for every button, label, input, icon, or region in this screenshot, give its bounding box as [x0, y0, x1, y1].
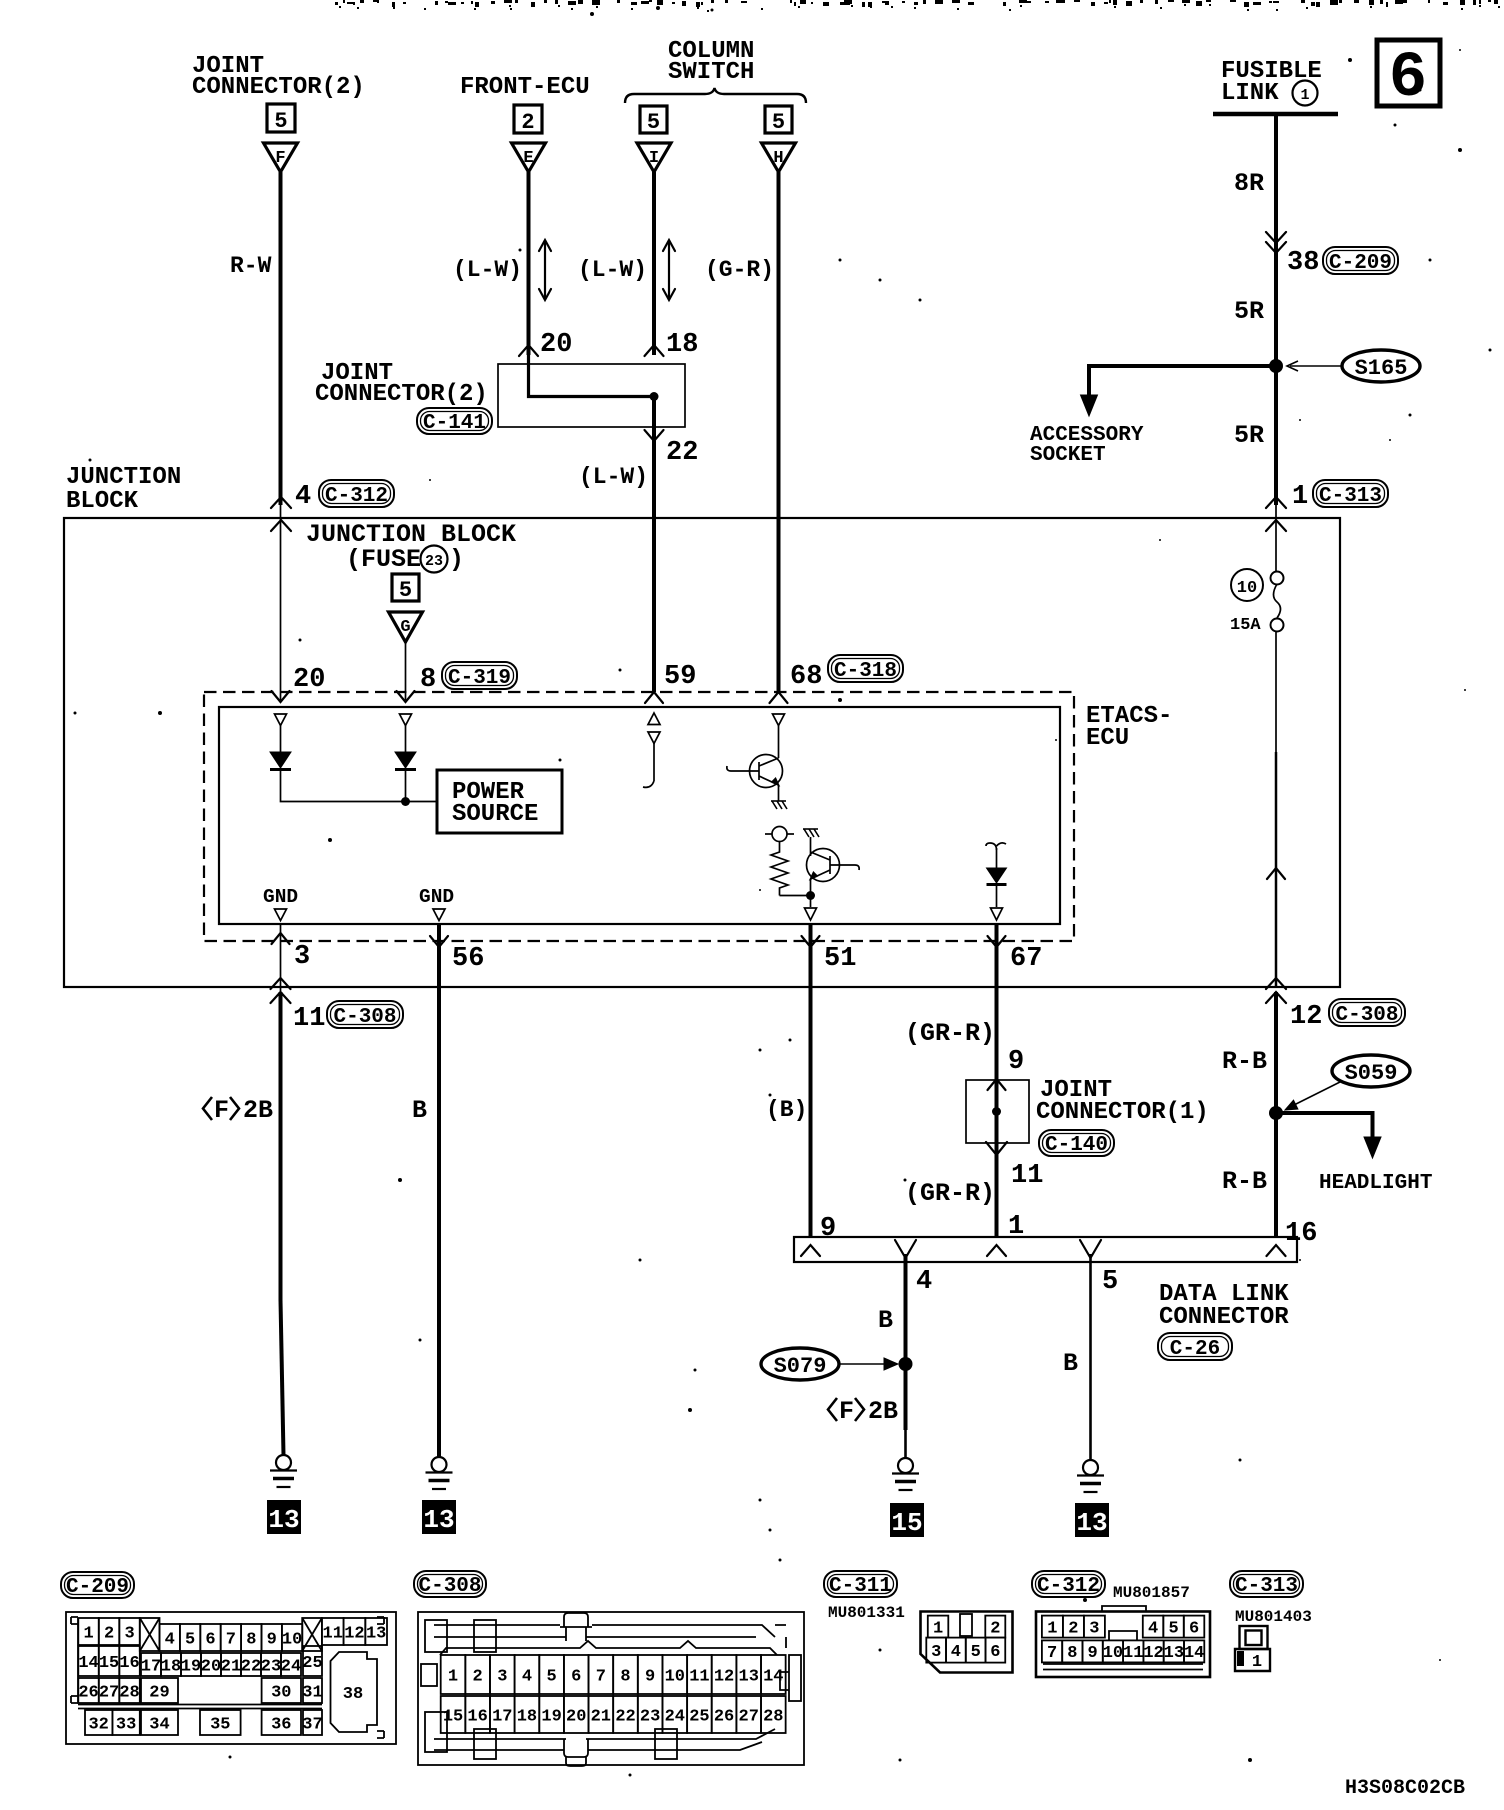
pin 56 chevron at dashed box	[430, 936, 448, 947]
data link connector bar	[794, 1237, 1297, 1262]
svg-text:G: G	[400, 618, 410, 637]
wire pin68 to transistor Q1 collector	[778, 726, 780, 759]
svg-text:33: 33	[116, 1715, 136, 1734]
connector stadium C-319	[442, 662, 517, 690]
svg-text:C-209: C-209	[1329, 252, 1392, 275]
svg-text:(GR-R): (GR-R)	[905, 1019, 995, 1048]
svg-text:5R: 5R	[1234, 297, 1264, 326]
svg-text:(G-R): (G-R)	[705, 257, 774, 283]
fuse symbol (two terminals + S link)	[1271, 572, 1284, 585]
svg-text:LINK: LINK	[1221, 80, 1279, 107]
connector count box 5 (F)	[267, 104, 295, 132]
svg-text:5: 5	[1102, 1267, 1118, 1297]
svg-text:C-311: C-311	[829, 1575, 892, 1598]
svg-text:6: 6	[1189, 1619, 1199, 1638]
svg-text:36: 36	[271, 1715, 291, 1734]
svg-text:F: F	[839, 1397, 854, 1426]
accessory socket branch wire	[1089, 366, 1276, 398]
svg-text:5: 5	[647, 110, 660, 135]
svg-text:13: 13	[1076, 1508, 1107, 1538]
svg-text:30: 30	[271, 1683, 291, 1702]
svg-text:12: 12	[1143, 1644, 1163, 1663]
wire pin59 to contact hook	[653, 744, 655, 782]
connector pin triangle E	[512, 143, 546, 172]
wire node to pin 51 triangle	[810, 896, 812, 908]
svg-text:S165: S165	[1355, 356, 1408, 381]
pin 67 output triangle	[991, 908, 1003, 920]
wire pin 56 down to ground G2	[437, 987, 441, 1457]
svg-text:B: B	[1063, 1349, 1078, 1378]
svg-text:HEADLIGHT: HEADLIGHT	[1319, 1172, 1432, 1195]
svg-text:12: 12	[1290, 1002, 1322, 1032]
svg-text:5: 5	[1168, 1619, 1178, 1638]
ETACS-ECU dashed boundary	[204, 692, 1074, 941]
pin 67 chevron at dashed box	[988, 936, 1006, 947]
svg-text:23: 23	[640, 1707, 660, 1726]
wire 5R lower to junction block	[1274, 366, 1278, 505]
svg-text:20: 20	[293, 665, 325, 695]
svg-text:C-319: C-319	[448, 667, 511, 690]
svg-text:F: F	[275, 149, 285, 168]
connector stadium C-308 (pin 12)	[1329, 999, 1405, 1027]
svg-text:20: 20	[540, 330, 572, 360]
connector stadium C-141	[417, 408, 492, 435]
junction dot node (pin 51)	[806, 891, 815, 900]
svg-text:11: 11	[1123, 1644, 1143, 1663]
POWER SOURCE box	[437, 770, 562, 833]
svg-text:67: 67	[1010, 944, 1042, 974]
chevron below C-140	[986, 1142, 1007, 1155]
svg-text:C-313: C-313	[1235, 1575, 1298, 1598]
wire pin4 to ETACS pin 20 inside block	[280, 500, 282, 700]
svg-text:38: 38	[1287, 248, 1319, 278]
svg-text:18: 18	[666, 330, 698, 360]
svg-text:4: 4	[1148, 1619, 1158, 1638]
connector C-311 pinout drawing	[921, 1612, 1013, 1673]
svg-text:7: 7	[226, 1630, 236, 1649]
svg-text:21: 21	[591, 1707, 611, 1726]
diode D2 (pin 8)	[395, 752, 416, 768]
svg-text:MU801331: MU801331	[828, 1604, 905, 1622]
C-209 pin 38 cavity	[331, 1652, 378, 1732]
wire fusible inside block (thin) upper	[1275, 500, 1277, 572]
connector stadium C-140	[1039, 1130, 1114, 1157]
svg-text:2: 2	[521, 110, 534, 135]
resistor R1	[771, 842, 788, 896]
DLC pin 5 chevron	[1080, 1240, 1101, 1258]
wire from G down to ETACS pin 8	[405, 642, 407, 700]
C-209 pins 26-31 row	[78, 1678, 99, 1703]
connector stadium C-26	[1158, 1333, 1232, 1361]
C-209 pins 32-37 row	[85, 1710, 112, 1735]
junction dot on rail	[401, 797, 410, 806]
ETACS-ECU inner box	[219, 707, 1060, 924]
headlight arrowhead	[1364, 1137, 1381, 1158]
accessory socket arrowhead	[1081, 395, 1098, 416]
svg-text:31: 31	[302, 1683, 322, 1702]
wire label (F)2B left	[203, 1096, 273, 1125]
junction dot inside C-140	[992, 1107, 1001, 1116]
DLC pin 4 chevron	[895, 1240, 916, 1258]
svg-text:(FUSE: (FUSE	[346, 545, 421, 574]
wire pin20 to diode D1	[280, 726, 282, 753]
svg-text:11: 11	[293, 1004, 325, 1034]
svg-text:C-318: C-318	[834, 660, 897, 683]
connector stadium C-318	[828, 655, 903, 683]
connector C-312 pinout drawing	[1036, 1606, 1210, 1677]
wire pin8 to diode D2	[405, 726, 407, 753]
double chevron pin 38	[1266, 232, 1286, 243]
svg-text:4: 4	[951, 1643, 961, 1662]
connector C-308 pinout drawing	[418, 1612, 804, 1766]
svg-text:3: 3	[124, 1624, 134, 1643]
circled 1 (fusible link number)	[1293, 81, 1318, 106]
svg-text:21: 21	[221, 1657, 241, 1676]
svg-text:27: 27	[99, 1683, 119, 1702]
svg-text:20: 20	[566, 1707, 586, 1726]
svg-text:1: 1	[1252, 1653, 1262, 1672]
connector C-209 pinout drawing	[66, 1612, 396, 1744]
wire fuse to block bottom pin 12	[1275, 631, 1277, 752]
svg-text:23: 23	[425, 553, 443, 570]
wire DLC pin 5 down to ground G4	[1089, 1254, 1092, 1460]
svg-text:56: 56	[452, 944, 484, 974]
wire bend inside C-141	[529, 355, 655, 397]
arrow from S079 to splice	[839, 1363, 893, 1365]
sheet ref black box 15 (G3)	[890, 1503, 924, 1537]
svg-text:8: 8	[420, 665, 436, 695]
svg-text:37: 37	[302, 1715, 322, 1734]
svg-text:JUNCTION: JUNCTION	[66, 464, 181, 491]
svg-text:3: 3	[294, 942, 310, 972]
svg-text:S079: S079	[774, 1354, 827, 1379]
svg-text:14: 14	[78, 1654, 98, 1673]
svg-text:2: 2	[990, 1619, 1000, 1638]
wire I continues below C-141 pin 22	[652, 397, 656, 693]
svg-text:3: 3	[1089, 1619, 1099, 1638]
wire R1 bottom to node	[780, 895, 811, 897]
pin 4 chevrons at junction block	[271, 497, 291, 508]
svg-text:17: 17	[141, 1657, 161, 1676]
pin 8 entry chevron	[397, 691, 415, 702]
wire from fusible link down	[1274, 114, 1278, 364]
connector count box 5 (I)	[640, 106, 667, 133]
svg-text:H3S08C02CB: H3S08C02CB	[1345, 1777, 1465, 1800]
svg-text:C-313: C-313	[1319, 485, 1382, 508]
connector stadium C-313 (top)	[1313, 480, 1388, 508]
svg-text:29: 29	[149, 1683, 169, 1702]
wire pin 12 down to data link pin 16	[1274, 992, 1278, 1237]
svg-text:22: 22	[241, 1657, 261, 1676]
svg-text:E: E	[523, 149, 533, 168]
svg-text:15: 15	[891, 1508, 922, 1538]
svg-text:5: 5	[547, 1667, 557, 1686]
chevron into C-140	[988, 1079, 1006, 1090]
svg-text:8: 8	[620, 1667, 630, 1686]
svg-text:5: 5	[274, 109, 287, 134]
svg-text:24: 24	[665, 1707, 685, 1726]
pin 11 chevrons at block bottom	[271, 978, 291, 989]
pin 12 chevrons at block bottom	[1266, 978, 1286, 989]
diode D3 (pin 67)	[996, 848, 998, 868]
svg-text:7: 7	[596, 1667, 606, 1686]
svg-text:14: 14	[1184, 1644, 1204, 1663]
DLC pin 9 chevron	[801, 1245, 820, 1256]
splice junction dot S165	[1269, 359, 1283, 373]
svg-text:24: 24	[281, 1657, 301, 1676]
transistor Q2 ground hatch (collector)	[803, 829, 819, 837]
svg-text:3: 3	[931, 1643, 941, 1662]
svg-text:6: 6	[1389, 43, 1427, 115]
svg-text:R-W: R-W	[230, 253, 272, 279]
svg-text:1: 1	[448, 1667, 458, 1686]
wire pin3 (thin) from GND to block bottom	[280, 924, 282, 992]
svg-text:GND: GND	[263, 886, 298, 908]
svg-text:1: 1	[933, 1619, 943, 1638]
pin 59 female triangle	[648, 732, 660, 744]
svg-text:11: 11	[323, 1624, 343, 1643]
sheet ref black box 13 (G2)	[422, 1500, 456, 1534]
wire F down to junction block pin 4	[279, 172, 283, 505]
connector stadium C-308 (pin 11)	[327, 1001, 403, 1029]
svg-text:15A: 15A	[1230, 616, 1261, 635]
svg-text:(L-W): (L-W)	[578, 257, 647, 283]
pin 22 chevron below C-141	[645, 430, 664, 441]
svg-text:23: 23	[261, 1657, 281, 1676]
svg-text:10: 10	[1237, 579, 1257, 598]
DLC pin 16 chevron	[1267, 1245, 1286, 1256]
svg-text:C-26: C-26	[1170, 1338, 1220, 1361]
diode D1 (pin 20)	[270, 752, 291, 768]
svg-text:2: 2	[1068, 1619, 1078, 1638]
svg-text:R-B: R-B	[1222, 1167, 1267, 1196]
wire D2 to rail	[405, 770, 407, 802]
wire pin56 from GND to block bottom	[437, 924, 441, 987]
svg-text:59: 59	[664, 662, 696, 692]
svg-text:F: F	[214, 1096, 229, 1125]
svg-text:28: 28	[763, 1707, 783, 1726]
sheet ref black box 13 (G1)	[267, 1500, 301, 1534]
wire E down to joint connector C-141 pin 20	[527, 172, 531, 355]
svg-text:C-312: C-312	[325, 485, 388, 508]
wire I down to C-141 pin 18	[652, 172, 656, 355]
svg-text:C-209: C-209	[66, 1576, 129, 1599]
svg-text:27: 27	[739, 1707, 759, 1726]
C-209 double rail lines	[78, 1705, 322, 1709]
connector pin triangle I	[637, 143, 671, 172]
wire pin 67 to joint connector C-140	[995, 987, 999, 1080]
fusible link bus bar	[1213, 112, 1338, 117]
C-209 pins 1-13 row	[78, 1618, 99, 1645]
svg-text:S059: S059	[1345, 1061, 1398, 1086]
svg-text:): )	[449, 545, 464, 574]
svg-text:SOCKET: SOCKET	[1030, 444, 1106, 467]
splice callout S165 oval	[1342, 350, 1420, 382]
svg-text:13: 13	[1164, 1644, 1184, 1663]
connector pin triangle H	[762, 143, 796, 172]
headlight branch wire	[1276, 1113, 1373, 1140]
svg-text:2B: 2B	[868, 1397, 898, 1426]
svg-text:10: 10	[282, 1630, 302, 1649]
connector stadium C-313 (bottom)	[1230, 1571, 1303, 1598]
transistor Q1	[727, 755, 783, 802]
svg-text:13: 13	[366, 1624, 386, 1643]
svg-text:I: I	[649, 149, 659, 168]
svg-text:C-312: C-312	[1037, 1575, 1100, 1598]
svg-text:SOURCE: SOURCE	[452, 801, 538, 828]
svg-text:28: 28	[119, 1683, 139, 1702]
pin 20 chevron at C-141	[519, 345, 538, 356]
pin 59 male triangle	[648, 713, 660, 725]
contact hook (switch contact)	[643, 781, 654, 787]
svg-text:4: 4	[165, 1630, 175, 1649]
bidirectional arrow beside wire E	[539, 240, 551, 300]
sheet number box 6	[1377, 40, 1440, 106]
svg-text:9: 9	[820, 1214, 836, 1244]
svg-text:SWITCH: SWITCH	[668, 59, 754, 86]
svg-text:8R: 8R	[1234, 169, 1264, 198]
svg-text:38: 38	[343, 1685, 363, 1704]
svg-text:CONNECTOR: CONNECTOR	[1159, 1304, 1289, 1331]
svg-text:25: 25	[302, 1654, 322, 1673]
arrow from S165 to splice	[1290, 365, 1342, 367]
svg-text:8: 8	[1067, 1644, 1077, 1663]
connector stadium C-312 (top)	[319, 480, 394, 508]
svg-text:32: 32	[88, 1715, 108, 1734]
arrow from S059 to splice	[1292, 1082, 1340, 1106]
svg-text:16: 16	[1285, 1219, 1317, 1249]
joint connector C-140 box	[966, 1080, 1029, 1143]
svg-text:1: 1	[1292, 482, 1308, 512]
DLC pin 1 chevron	[987, 1245, 1006, 1256]
svg-text:9: 9	[267, 1630, 277, 1649]
svg-text:C-141: C-141	[423, 412, 486, 435]
svg-text:MU801857: MU801857	[1113, 1584, 1190, 1602]
svg-text:FRONT-ECU: FRONT-ECU	[460, 74, 590, 101]
svg-text:20: 20	[201, 1657, 221, 1676]
svg-text:4: 4	[916, 1267, 932, 1297]
svg-text:8: 8	[246, 1630, 256, 1649]
junction block outline	[64, 518, 1340, 987]
circled 23	[421, 546, 448, 573]
svg-text:5: 5	[772, 110, 785, 135]
ground G3	[892, 1458, 919, 1490]
bidirectional arrow beside wire I	[663, 240, 675, 300]
svg-text:5: 5	[399, 578, 412, 603]
svg-text:9: 9	[1008, 1047, 1024, 1077]
fuse circled 10 label	[1231, 569, 1263, 601]
junction dot inside C-141	[650, 392, 659, 401]
pin 68 input triangle	[773, 714, 785, 726]
connector stadium C-209 (bottom)	[61, 1572, 134, 1599]
connector count box 2 (E)	[514, 105, 542, 133]
svg-text:26: 26	[78, 1683, 98, 1702]
svg-text:18: 18	[517, 1707, 537, 1726]
svg-text:10: 10	[1103, 1644, 1123, 1663]
pin 51 output triangle	[805, 908, 817, 920]
C-209 pins 14-25 row	[78, 1646, 99, 1676]
svg-text:ECU: ECU	[1086, 725, 1129, 752]
svg-text:(L-W): (L-W)	[579, 464, 648, 490]
pin 3 chevron at dashed box	[272, 933, 290, 944]
svg-text:(B): (B)	[766, 1097, 807, 1123]
wire pin51 to block bottom	[809, 924, 813, 987]
svg-text:51: 51	[824, 944, 856, 974]
pin 18 chevron at C-141	[645, 345, 664, 356]
svg-text:13: 13	[423, 1505, 454, 1535]
svg-text:11: 11	[689, 1667, 709, 1686]
svg-text:GND: GND	[419, 886, 454, 908]
svg-text:MU801403: MU801403	[1235, 1608, 1312, 1626]
splice callout S059 oval	[1332, 1055, 1410, 1087]
svg-text:6: 6	[205, 1630, 215, 1649]
wire DLC pin 4 down to ground G3	[904, 1254, 908, 1430]
pin 1 chevrons at junction block	[1266, 497, 1286, 508]
connector stadium C-209 (top)	[1323, 247, 1398, 275]
svg-text:H: H	[773, 149, 783, 168]
svg-text:R-B: R-B	[1222, 1047, 1267, 1076]
wire label (F)2B (pin 4)	[828, 1397, 898, 1426]
svg-text:3: 3	[497, 1667, 507, 1686]
svg-text:5: 5	[971, 1643, 981, 1662]
svg-text:15: 15	[99, 1654, 119, 1673]
wire H down to ETACS pin 68	[777, 172, 781, 692]
C-308 pins 15-28 row	[441, 1696, 466, 1733]
svg-text:9: 9	[1088, 1644, 1098, 1663]
ground G2	[426, 1457, 453, 1489]
svg-text:C-308: C-308	[333, 1006, 396, 1029]
fuse pin triangle G	[389, 612, 423, 642]
svg-text:C-308: C-308	[418, 1575, 481, 1598]
svg-text:68: 68	[790, 662, 822, 692]
svg-text:15: 15	[443, 1707, 463, 1726]
svg-text:(L-W): (L-W)	[453, 257, 522, 283]
connector C-313 pinout drawing	[1235, 1626, 1270, 1671]
svg-text:22: 22	[666, 438, 698, 468]
svg-text:1: 1	[1300, 87, 1309, 104]
svg-text:13: 13	[268, 1505, 299, 1535]
svg-text:1: 1	[83, 1624, 93, 1643]
ground G1	[270, 1455, 297, 1487]
svg-text:BLOCK: BLOCK	[66, 488, 139, 515]
svg-text:C-140: C-140	[1045, 1134, 1108, 1157]
svg-text:B: B	[412, 1096, 427, 1125]
svg-text:CONNECTOR(2): CONNECTOR(2)	[192, 74, 365, 101]
connector pin triangle F	[264, 143, 298, 172]
svg-text:35: 35	[210, 1715, 230, 1734]
svg-text:11: 11	[1011, 1161, 1043, 1191]
svg-text:CONNECTOR(1): CONNECTOR(1)	[1036, 1099, 1209, 1126]
pin 51 chevron at dashed box	[802, 936, 820, 947]
GND pin triangle right	[433, 909, 445, 921]
svg-text:16: 16	[467, 1707, 487, 1726]
svg-text:9: 9	[645, 1667, 655, 1686]
diode D3 top hook	[986, 843, 997, 850]
svg-text:CONNECTOR(2): CONNECTOR(2)	[315, 381, 488, 408]
svg-text:C-308: C-308	[1335, 1004, 1398, 1027]
svg-text:34: 34	[149, 1715, 169, 1734]
svg-text:22: 22	[615, 1707, 635, 1726]
wire D1 to power source rail	[281, 770, 438, 802]
svg-text:17: 17	[492, 1707, 512, 1726]
wire pin 51 down to data link pin 9	[809, 987, 813, 1237]
C-308 pins 1-14 row	[441, 1655, 466, 1694]
svg-text:18: 18	[161, 1657, 181, 1676]
svg-text:6: 6	[990, 1643, 1000, 1662]
svg-text:10: 10	[665, 1667, 685, 1686]
svg-text:(GR-R): (GR-R)	[905, 1179, 995, 1208]
splice callout S079 oval	[761, 1348, 839, 1380]
